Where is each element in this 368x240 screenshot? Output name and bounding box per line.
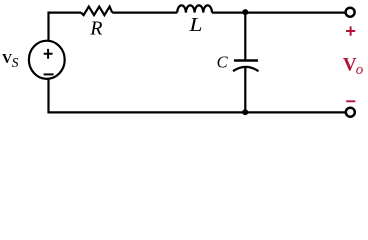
svg-text:S: S (12, 55, 19, 70)
voltage source VS circle (29, 41, 65, 79)
terminal bottom-right (346, 108, 355, 117)
minus sign inside source (44, 73, 54, 75)
wire resistor to inductor (112, 12, 177, 14)
output minus sign (red) (346, 100, 355, 102)
node A junction dot (242, 9, 248, 15)
svg-text:V: V (2, 52, 12, 67)
svg-text:L: L (188, 14, 202, 36)
svg-text:V: V (343, 55, 357, 76)
resistor R (81, 7, 112, 16)
wire bottom (source bottom to bottom-right terminal) (49, 78, 346, 112)
wire inductor to top-right terminal (212, 12, 345, 14)
capacitor C curved plate (233, 67, 259, 71)
wire capacitor to node B (244, 67, 246, 113)
svg-text:o: o (356, 62, 364, 78)
terminal top-right (346, 8, 355, 17)
wire top-left corner (source top to resistor) (49, 13, 82, 42)
wire node A to capacitor top plate (244, 13, 246, 61)
capacitor C top plate (234, 59, 258, 61)
svg-text:C: C (217, 53, 229, 72)
inductor L (177, 5, 212, 12)
svg-text:R: R (89, 18, 102, 40)
plus sign inside source (44, 49, 53, 59)
output plus sign (red) (346, 26, 355, 35)
node B junction dot (242, 109, 248, 115)
